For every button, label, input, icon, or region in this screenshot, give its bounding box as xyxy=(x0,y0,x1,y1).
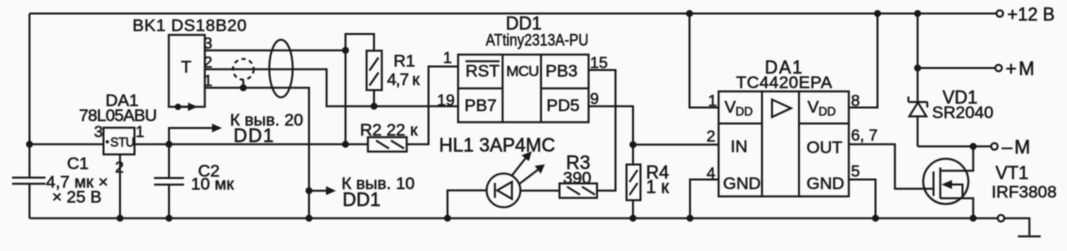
node VT1 source on bus xyxy=(970,215,977,222)
svg-text:2: 2 xyxy=(707,129,716,146)
svg-text:4,7 к: 4,7 к xyxy=(387,70,420,89)
wire DA1 pin8 to +12V rail xyxy=(849,14,878,108)
resistor R3 xyxy=(520,183,597,198)
svg-text:OUT: OUT xyxy=(807,138,843,157)
svg-text:TC4420EPA: TC4420EPA xyxy=(736,73,833,92)
svg-text:SR2040: SR2040 xyxy=(932,103,993,122)
svg-text:VT1: VT1 xyxy=(996,163,1029,183)
node C2 bottom on bus xyxy=(166,215,173,222)
node +5V tap on left rail xyxy=(26,141,33,148)
wire -M line xyxy=(918,145,992,147)
wire DD1 pin15 to R3 xyxy=(589,70,616,191)
transistor VT1 IRF3808 xyxy=(923,146,973,218)
label ATtiny2313A-PU xyxy=(486,31,589,50)
svg-text:1: 1 xyxy=(443,50,452,67)
temperature sensor BK1 DS18B20 box xyxy=(169,35,205,107)
cell RST with overline xyxy=(466,61,500,80)
driver DA1 TC4420EPA box xyxy=(719,91,849,196)
node +M tap xyxy=(914,65,921,72)
svg-text:1 к: 1 к xyxy=(646,177,669,197)
svg-text:10 мк: 10 мк xyxy=(191,175,234,194)
resistor R4 xyxy=(627,165,641,219)
svg-text:5: 5 xyxy=(851,164,860,181)
svg-text:–М: –М xyxy=(1002,138,1032,159)
terminal GND output xyxy=(998,215,1005,222)
wire DA1 OUT to VT1 gate xyxy=(849,144,934,189)
node DA1 pin8 on rail xyxy=(874,10,881,17)
svg-text:78L05ABU: 78L05ABU xyxy=(79,106,156,125)
svg-text:R1: R1 xyxy=(394,51,416,70)
capacitor C2 xyxy=(154,144,184,218)
cell VDD right xyxy=(808,98,837,119)
node C2 top on +5V rail xyxy=(166,141,173,148)
svg-text:STU: STU xyxy=(110,135,134,149)
terminal -M xyxy=(991,143,998,150)
capacitor C1 xyxy=(12,144,46,218)
LED HL1 xyxy=(448,151,545,218)
svg-text:BK1 DS18B20: BK1 DS18B20 xyxy=(133,16,248,35)
svg-text:IN: IN xyxy=(731,137,748,156)
node pin9 branch xyxy=(630,141,637,148)
svg-text:3: 3 xyxy=(94,124,103,141)
svg-text:6, 7: 6, 7 xyxy=(851,127,878,144)
node VT1 drain on -M line xyxy=(970,143,977,150)
node +5V rail junction xyxy=(342,141,349,148)
svg-text:PB7: PB7 xyxy=(465,96,497,115)
wire +12V branch to VD1 xyxy=(917,14,919,69)
cell triangle driver symbol xyxy=(772,100,791,118)
wire +M line xyxy=(918,67,996,69)
wire DD1 pin9 to R4 and DA1 IN xyxy=(589,106,633,164)
cable shield dashed circle xyxy=(233,59,254,88)
svg-text:DD1: DD1 xyxy=(234,126,275,147)
svg-text:19: 19 xyxy=(437,93,455,110)
svg-text:PB3: PB3 xyxy=(546,62,578,81)
node regulator GND on bus xyxy=(117,215,124,222)
svg-text:PD5: PD5 xyxy=(547,96,580,115)
node DA1 pin5 on bus xyxy=(872,215,879,222)
svg-text:IRF3808: IRF3808 xyxy=(992,183,1057,202)
wire arrow to pin 10 DD1 xyxy=(306,186,337,195)
wire to DA1 IN xyxy=(633,144,719,146)
svg-text:DD1: DD1 xyxy=(343,190,381,211)
node pin3 junction xyxy=(342,47,349,54)
svg-text:× 25 В: × 25 В xyxy=(52,188,102,207)
svg-text:HL1 3АР4МС: HL1 3АР4МС xyxy=(439,136,555,157)
node BK1 pin1 on bus xyxy=(306,215,313,222)
node DA1 pin4 on bus xyxy=(687,215,694,222)
wire to ground symbol xyxy=(1004,218,1029,235)
terminal +M xyxy=(995,65,1002,72)
sensor bottom marker dot and arrow xyxy=(175,103,198,111)
resistor R1 xyxy=(346,34,382,106)
cell VDD left xyxy=(725,98,754,119)
wire BK1 pin1 to GND bus xyxy=(205,88,309,218)
svg-text:C1: C1 xyxy=(67,154,89,173)
wire arrow to pin 20 DD1 xyxy=(169,124,222,145)
svg-text:DD: DD xyxy=(819,105,837,119)
node DA1 pin1 on rail xyxy=(686,10,693,17)
svg-text:ATtiny2313A-PU: ATtiny2313A-PU xyxy=(486,31,589,50)
svg-text:+М: +М xyxy=(1006,59,1037,80)
wire BK1 pin2 data line to DD1 pin19 xyxy=(205,69,458,106)
wire regulator pin2 to GND bus xyxy=(119,154,121,218)
svg-text:1: 1 xyxy=(136,124,145,141)
wire DA1 pin5 to bus xyxy=(849,180,876,219)
node HL1 on bus xyxy=(444,215,451,222)
ground xyxy=(1018,235,1041,237)
node R1 bottom on data line xyxy=(371,103,378,110)
svg-text:+12 В: +12 В xyxy=(1007,5,1055,25)
node shield to GND wire xyxy=(240,84,247,91)
wire DA1 pin1 to +12V rail xyxy=(690,14,719,108)
node R4 on bus xyxy=(630,215,637,222)
wire bottom GND bus xyxy=(30,217,998,219)
svg-text:DD: DD xyxy=(736,105,754,119)
wire DA1 pin4 to bus xyxy=(690,180,719,219)
wire left vertical rail xyxy=(29,14,31,219)
node VD1 branch on rail xyxy=(914,10,921,17)
svg-text:R2 22 к: R2 22 к xyxy=(360,121,418,140)
svg-text:390: 390 xyxy=(563,168,591,187)
cable ellipse symbol xyxy=(269,40,292,98)
svg-text:RST: RST xyxy=(466,62,500,81)
voltage regulator DA1 78L05ABU box xyxy=(104,128,135,155)
svg-text:T: T xyxy=(181,57,191,76)
wire +12V top rail xyxy=(30,13,997,15)
wire +5V drop to rail xyxy=(345,50,347,144)
terminal +12 В xyxy=(997,10,1004,17)
svg-text:GND: GND xyxy=(723,174,761,193)
svg-text:MCU: MCU xyxy=(506,63,538,80)
svg-text:GND: GND xyxy=(807,174,845,193)
wire +5V rail from regulator xyxy=(30,143,346,145)
microcontroller DD1 ATtiny2313A-PU box xyxy=(458,55,588,123)
diode VD1 SR2040 xyxy=(908,68,927,146)
wire BK1 pin3 (+5V) xyxy=(205,49,346,51)
resistor R2 xyxy=(346,67,459,152)
